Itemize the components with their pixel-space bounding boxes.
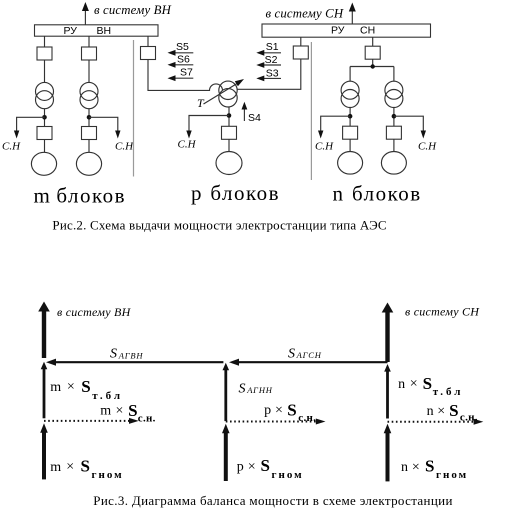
node junction unit4 [392,114,397,119]
svg-text:р: р [191,181,202,205]
arrow S6 [168,53,194,67]
svg-text:S: S [449,401,458,420]
svg-text:S2: S2 [265,54,278,66]
arrow to С.Н unit2 [115,131,120,139]
svg-text:С.Н: С.Н [2,141,21,153]
arrow S АГНН column [223,363,230,421]
wire [44,109,46,127]
svg-text:×: × [437,404,445,419]
label n x S т.бл [398,374,463,398]
svg-text:АГВН: АГВН [118,350,144,360]
arrow to HV system (balance) [38,302,50,359]
transformer unit3 [341,81,359,107]
node junction unit3 [348,114,353,119]
separator line m/p sections [133,40,135,177]
svg-text:×: × [410,377,418,392]
svg-text:С.Н: С.Н [178,139,197,151]
svg-text:×: × [412,460,420,475]
svg-text:m: m [100,404,111,419]
svg-text:гном: гном [436,469,468,481]
arrow S4 [242,102,262,124]
svg-text:S: S [110,347,117,362]
svg-text:S: S [81,377,90,396]
node junction p-unit [227,113,232,118]
breaker unit3 generator [343,126,358,139]
node junction unit2 [87,115,92,120]
autotransformer T [219,81,237,107]
wire bus drop 3 [147,36,149,46]
arrow to MV system (balance) [382,303,394,363]
svg-text:S: S [423,374,432,393]
arrow to С.Н unit1 [14,131,19,139]
regulation arrow through T [204,79,245,104]
label m x S с.н. [100,401,155,424]
svg-text:S: S [128,401,137,420]
svg-text:m: m [50,380,61,395]
arrow n S т.бл column [384,364,391,419]
bus РУ СН (MV switchgear busbar) [262,24,431,37]
svg-text:блоков: блоков [210,181,280,205]
transformer unit2 [80,82,98,108]
svg-text:РУ: РУ [64,25,78,37]
generator G3 [216,152,242,175]
arrow S2 [256,54,281,68]
arrow to С.Н p-unit [186,131,191,139]
svg-text:С.Н: С.Н [115,141,134,153]
svg-text:S4: S4 [248,112,261,124]
wire СН bus left drop [300,37,302,46]
svg-text:S3: S3 [266,67,279,79]
dotted arrow m S с.н. [44,418,139,424]
breaker unit1 top [37,47,52,60]
svg-text:СН: СН [360,25,375,37]
label n x S гном [401,456,468,481]
svg-text:с.н.: с.н. [460,412,478,424]
svg-text:в систему ВН: в систему ВН [57,305,132,319]
wire aux branch unit2 [89,117,118,132]
svg-text:×: × [116,403,124,418]
arrow S_АГВН [46,359,223,366]
svg-text:S6: S6 [177,53,190,65]
label р блоков [191,181,280,205]
breaker unit2 generator [82,127,97,140]
svg-text:Рис.2. Схема выдачи мощности э: Рис.2. Схема выдачи мощности электростан… [52,218,386,233]
label m блоков [34,184,127,208]
svg-text:блоков: блоков [56,184,126,208]
svg-text:т.бл: т.бл [92,390,123,402]
wire autotransformer down [228,107,230,126]
separator line p/n sections [310,42,312,180]
generator G4 [338,152,363,175]
svg-text:АГНН: АГНН [246,385,273,395]
wire СН bus middle drop [372,37,374,46]
label m x S т.бл [50,377,123,402]
svg-text:S: S [425,456,434,475]
svg-text:n: n [427,404,434,419]
arrow S1 [256,41,281,56]
label m x S гном [50,456,123,481]
wire [349,108,351,127]
wire aux branch unit1 [17,117,45,132]
bus РУ ВН (HV switchgear busbar) [35,25,159,37]
node junction feeder [371,64,375,68]
arrow S3 [256,67,281,81]
wire aux branch unit4 [394,116,423,132]
svg-text:ВН: ВН [97,25,112,37]
generator G1 [31,152,56,175]
svg-text:m: m [50,460,61,475]
arrow S_АГСН [229,359,388,366]
arrow m S гном column [40,423,48,479]
svg-text:гном: гном [272,469,304,481]
wire [44,60,46,83]
wire bus drop 2 [88,36,90,47]
svg-text:С.Н: С.Н [418,141,437,153]
svg-text:с.н.: с.н. [298,412,316,424]
generator G5 [381,152,406,175]
wire [88,140,90,153]
wire [228,139,230,151]
svg-text:S5: S5 [176,41,189,53]
svg-text:РУ: РУ [331,25,345,37]
svg-text:АГСН: АГСН [296,350,322,360]
svg-text:×: × [67,380,75,395]
wire aux branch p-unit [189,116,229,133]
svg-text:p: p [237,460,244,475]
label n x S с.н. [427,401,478,424]
svg-text:в систему СН: в систему СН [405,305,480,319]
svg-text:гном: гном [92,469,124,481]
wire [393,108,395,127]
breaker unit1 generator [37,127,52,140]
svg-text:S7: S7 [180,67,193,79]
wire to autotransformer with hop [148,60,223,91]
arrow to MV system [349,3,356,25]
wire СН bus to autotransformer [237,59,301,89]
svg-text:S: S [261,456,270,475]
arrow to HV system [82,2,89,25]
breaker unit2 top [82,47,97,60]
svg-text:S: S [287,401,296,420]
arrow S5 [168,41,194,56]
dotted arrow n S с.н. [388,419,484,425]
svg-text:Рис.3. Диаграмма баланса мощно: Рис.3. Диаграмма баланса мощности в схем… [93,493,453,508]
arrow to С.Н unit4 [421,131,426,139]
label n блоков [333,182,422,206]
arrow n S гном column [384,424,392,482]
arrow S7 [168,67,194,82]
wire [349,139,351,151]
wire [88,60,90,83]
svg-text:С.Н: С.Н [315,141,334,153]
svg-text:p: p [264,403,271,418]
svg-text:с.н.: с.н. [138,412,156,424]
wire split to two units [350,59,394,81]
wire [393,139,395,151]
generator G2 [76,152,101,175]
transformer unit4 [385,81,403,107]
breaker p-unit generator [222,126,237,139]
svg-text:m: m [34,184,50,208]
svg-text:S: S [239,382,246,397]
wire [88,109,90,127]
breaker n-units feeder [365,46,380,59]
arrow to С.Н unit3 [318,131,323,139]
arrow m S т.бл column [41,362,48,419]
breaker autotransformer HV [141,47,156,60]
transformer unit1 [36,82,54,108]
wire aux branch unit3 [321,116,350,132]
svg-text:×: × [275,403,283,418]
svg-text:×: × [66,460,74,475]
svg-text:S1: S1 [266,41,279,53]
svg-text:в систему ВН: в систему ВН [94,3,172,17]
svg-text:n: n [401,460,408,475]
label p x S гном [237,456,304,481]
arrow p S гном column [222,424,230,481]
svg-text:т.бл: т.бл [433,386,464,398]
wire bus drop 1 [44,36,46,47]
label p x S с.н. [264,401,316,424]
svg-text:n: n [398,377,405,392]
svg-text:S: S [81,456,90,475]
breaker unit4 generator [386,126,401,139]
wire [44,140,46,153]
svg-text:в систему СН: в систему СН [266,6,344,20]
svg-text:S: S [288,347,295,362]
dotted arrow p S с.н. [226,419,326,425]
breaker СН feeder [293,46,308,59]
node junction unit1 [42,115,47,120]
svg-text:блоков: блоков [352,182,422,206]
svg-text:n: n [333,182,344,206]
svg-text:×: × [248,459,256,474]
